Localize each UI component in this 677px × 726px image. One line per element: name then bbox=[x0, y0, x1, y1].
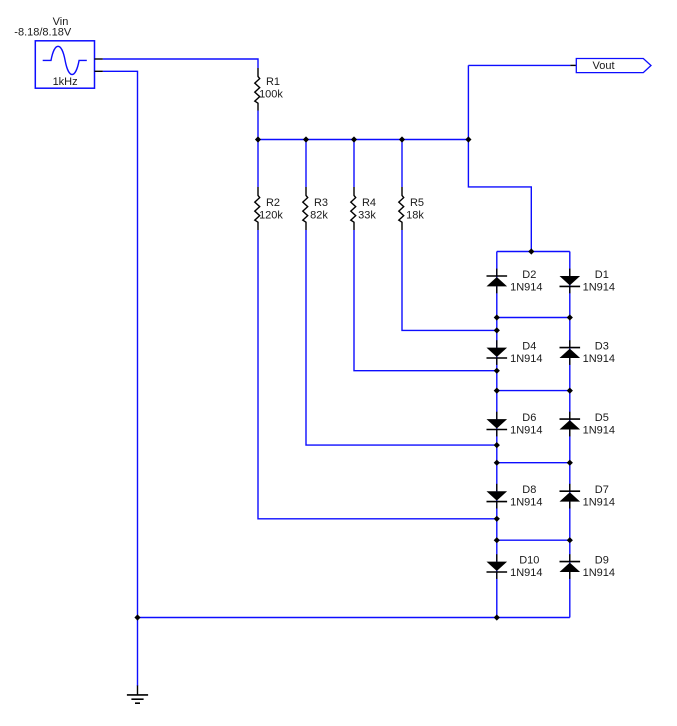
svg-text:D6: D6 bbox=[522, 412, 536, 424]
svg-text:100k: 100k bbox=[259, 89, 283, 101]
svg-text:33k: 33k bbox=[358, 209, 376, 221]
svg-text:1N914: 1N914 bbox=[510, 353, 542, 365]
svg-text:Vout: Vout bbox=[592, 60, 614, 72]
svg-text:D9: D9 bbox=[595, 555, 609, 567]
svg-text:D3: D3 bbox=[595, 341, 609, 353]
svg-text:D8: D8 bbox=[522, 484, 536, 496]
svg-text:1N914: 1N914 bbox=[510, 425, 542, 437]
svg-text:1N914: 1N914 bbox=[583, 353, 615, 365]
svg-text:-8.18/8.18V: -8.18/8.18V bbox=[14, 27, 72, 39]
svg-text:R2: R2 bbox=[266, 197, 280, 209]
svg-text:1N914: 1N914 bbox=[583, 567, 615, 579]
svg-text:D5: D5 bbox=[595, 412, 609, 424]
svg-text:R3: R3 bbox=[314, 197, 328, 209]
svg-text:1N914: 1N914 bbox=[510, 281, 542, 293]
svg-text:D10: D10 bbox=[519, 555, 539, 567]
svg-text:18k: 18k bbox=[406, 209, 424, 221]
svg-text:1N914: 1N914 bbox=[583, 425, 615, 437]
svg-text:D4: D4 bbox=[522, 341, 536, 353]
svg-text:R4: R4 bbox=[362, 197, 376, 209]
svg-text:R1: R1 bbox=[266, 76, 280, 88]
svg-text:R5: R5 bbox=[410, 197, 424, 209]
svg-text:1N914: 1N914 bbox=[583, 497, 615, 509]
svg-text:1N914: 1N914 bbox=[510, 497, 542, 509]
svg-text:D2: D2 bbox=[522, 269, 536, 281]
svg-text:1kHz: 1kHz bbox=[53, 76, 78, 88]
svg-text:1N914: 1N914 bbox=[583, 281, 615, 293]
svg-text:120k: 120k bbox=[259, 209, 283, 221]
svg-text:D1: D1 bbox=[595, 269, 609, 281]
svg-text:1N914: 1N914 bbox=[510, 567, 542, 579]
svg-text:82k: 82k bbox=[310, 209, 328, 221]
svg-text:D7: D7 bbox=[595, 484, 609, 496]
